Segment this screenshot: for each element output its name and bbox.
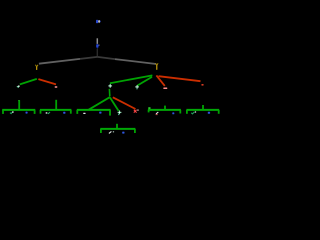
bracket B5 corner bright — [148, 107, 150, 110]
node R yellow mark — [156, 63, 159, 70]
label white4 under B4 — [109, 131, 114, 133]
label white5 under B5 — [156, 112, 159, 115]
label check2 under B2 — [46, 112, 50, 114]
bracket B1 stem — [18, 100, 19, 101]
node L yellow mark — [35, 65, 38, 70]
wire red edge R long — [159, 76, 201, 81]
bracket B5 tick right — [179, 110, 181, 114]
wire faint edge below S — [96, 49, 98, 57]
bracket B2 bar — [40, 109, 72, 111]
label check1 under B1 — [10, 111, 14, 113]
label blue5 under B5 — [172, 112, 174, 114]
label blue2 under B2 — [63, 112, 65, 114]
bracket B6 bar — [186, 109, 219, 111]
bracket B6 stem — [202, 105, 204, 110]
wire green link n3 down to junction — [108, 89, 110, 97]
node leaf1 teal star — [17, 86, 20, 89]
bracket B3 tick left — [76, 110, 78, 114]
bracket B5 tick left — [148, 110, 150, 112]
bracket B2 stem — [55, 100, 57, 110]
bracket B4 tick left — [100, 129, 102, 133]
label white3 under B3 — [83, 113, 85, 114]
wire green edge R to n3 — [110, 75, 152, 83]
bracket B5 bar — [148, 109, 181, 111]
wire green left leg diagonal — [89, 97, 110, 110]
node n3 teal star — [108, 84, 112, 88]
node leaf teal star d3 — [118, 111, 122, 116]
wire green edge R to n4 — [137, 77, 152, 86]
bracket B2 tick right — [70, 110, 72, 114]
bracket B3 tick right — [109, 110, 111, 116]
bracket B1 tick left — [2, 110, 4, 114]
wire red edge junction to X — [113, 97, 136, 109]
bracket B5 stem — [164, 106, 166, 110]
wire red edge R short — [156, 75, 164, 86]
bracket B3 bar — [77, 109, 111, 111]
wire green right leg diagonal — [110, 97, 119, 111]
bracket B6 tick left — [186, 110, 188, 114]
bracket B4 tick right — [134, 129, 136, 133]
node ROOT label (blue glyph with white) — [96, 20, 101, 23]
wire gray edge S to left node — [39, 57, 97, 64]
node leaf2 pink label — [55, 86, 58, 87]
label blue1 under B1 — [26, 112, 28, 114]
node n4 teal star — [135, 85, 139, 89]
bracket B4 bar — [100, 128, 135, 130]
label blue3 under B3 — [99, 112, 101, 114]
label blue4 under B4 — [122, 132, 124, 134]
wire gray edge S to right node — [97, 57, 156, 64]
bracket B4 stem — [116, 124, 118, 129]
label check6 under B6 — [191, 111, 196, 114]
wire root vertical edge — [96, 38, 98, 44]
bracket B1 bar — [2, 109, 35, 111]
label blue6 under B6 — [208, 112, 210, 114]
node leaf pink label right — [163, 88, 167, 90]
bracket B2 tick left — [40, 110, 42, 114]
node leaf pink X label — [134, 110, 139, 113]
node leaf red dot far right — [201, 84, 203, 86]
bracket B6 tick right — [218, 110, 220, 114]
wire green edge L to leaf1 — [20, 79, 37, 85]
wire red edge L to leaf2 — [38, 79, 56, 84]
node S label (blue glyph) — [96, 44, 99, 49]
bracket B1 tick right — [34, 110, 36, 114]
